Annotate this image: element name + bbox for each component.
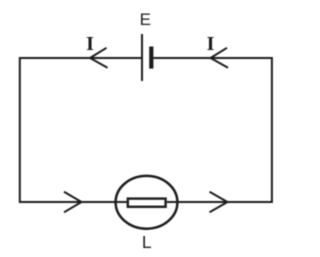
- wire top-right segment: [153, 57, 272, 59]
- svg-text:I: I: [207, 33, 215, 55]
- wire left side: [19, 57, 21, 203]
- current arrow I (top-left, pointing left): [90, 48, 108, 68]
- label E (battery value label): [140, 10, 151, 29]
- wire right side: [271, 57, 273, 203]
- current arrow I (bottom-right, pointing right): [210, 192, 228, 213]
- current arrow I (bottom-left, pointing right): [64, 192, 82, 213]
- svg-text:I: I: [86, 33, 94, 55]
- current arrow I (top-right, pointing left): [211, 48, 229, 68]
- lamp L: filament rectangle: [128, 199, 166, 207]
- svg-text:E: E: [140, 10, 151, 29]
- battery E (cell): long positive plate: [141, 34, 143, 81]
- lamp L: envelope circle: [116, 176, 178, 229]
- svg-text:L: L: [142, 232, 152, 252]
- wire top-left segment: [20, 57, 142, 59]
- wire bottom-right segment: [167, 201, 272, 203]
- battery E (cell): short thick negative plate: [149, 47, 153, 69]
- label I (top-left current): [86, 33, 94, 55]
- wire bottom-left segment: [20, 201, 127, 203]
- label I (top-right current): [207, 33, 215, 55]
- label L (lamp designator): [142, 232, 152, 252]
